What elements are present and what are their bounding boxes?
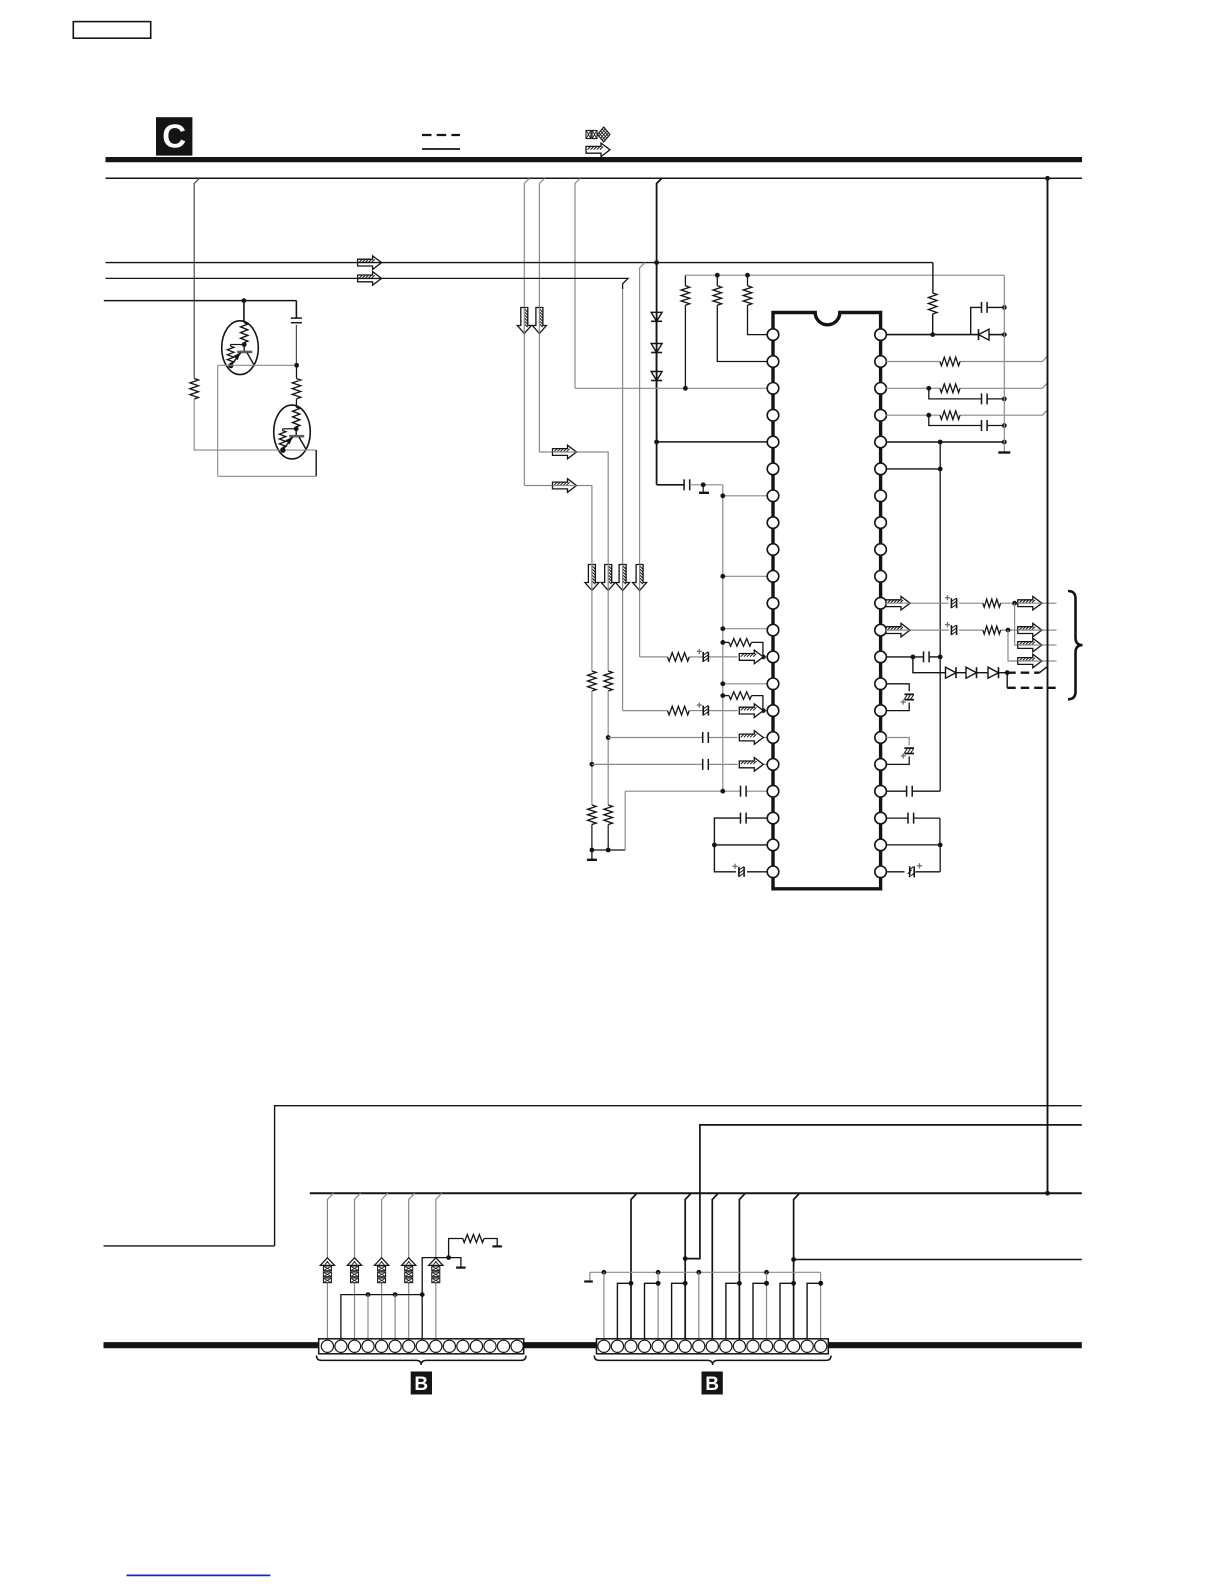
terminal bar stub: [449, 1258, 466, 1268]
arrow into pin13: [739, 650, 763, 664]
U1 pin L19: [767, 812, 779, 824]
wire pin R4 row: [886, 410, 1048, 418]
svg-text:B: B: [414, 1374, 428, 1395]
wire D5-D6: [956, 672, 966, 674]
bottom bus thick: [104, 1342, 1082, 1348]
arrow down B: [532, 308, 546, 334]
wire pin16 row: [608, 737, 767, 739]
U1 pin L12: [767, 624, 779, 636]
wire D3 to pin3 row: [656, 381, 658, 389]
node D4 cathode-ish: [1002, 305, 1007, 337]
node Q1 emitter net right: [294, 363, 299, 368]
node bus vertical bottom: [1045, 1191, 1050, 1196]
dashed link to bus: [1007, 666, 1047, 672]
resistor R8: [940, 384, 960, 393]
diode D5: [946, 667, 957, 678]
resistor R11: [604, 671, 613, 691]
wire diode stem to pin5 row: [654, 440, 767, 445]
hook CN2 pin2-pin3: [617, 1281, 633, 1339]
transistor Q2: [274, 405, 311, 459]
wire pin15 row: [623, 710, 768, 712]
wire x608 lower: [607, 588, 609, 671]
arrow bus row4: [1018, 654, 1042, 668]
wire pin12 row: [720, 626, 767, 631]
capacitor C3 polarized: [697, 649, 709, 662]
arrow up CN1 pin9: [429, 1258, 443, 1283]
node gang c6: [393, 1292, 398, 1297]
ground rail under resistors: [590, 848, 626, 853]
capacitor C14 polarized: [945, 622, 957, 635]
resistor R13: [604, 805, 613, 825]
ground G2: [699, 485, 709, 493]
hook CN2 pin4-pin5: [645, 1281, 661, 1339]
U1 pin R21: [875, 866, 887, 878]
legend checkered arrow: [586, 127, 610, 142]
svg-text:C: C: [162, 118, 186, 155]
hook CN2 pin12-pin13: [753, 1281, 769, 1339]
arrow down A: [517, 308, 531, 334]
diode D6: [966, 667, 977, 678]
IC U1: [773, 313, 881, 889]
wire drop CN1 pin9: [436, 1193, 442, 1339]
node gang net-junction: [420, 1292, 425, 1297]
wire drop to Q1 area: [194, 178, 199, 378]
U1 pin R19: [875, 812, 887, 824]
brace right harness: [1068, 591, 1083, 699]
U1 pin L1: [767, 329, 779, 341]
ground rail CN2: [590, 1271, 821, 1273]
wire gang c6 drop: [394, 1295, 396, 1339]
hook CN2 pin16-pin17: [807, 1281, 823, 1339]
arrow bus R11: [1018, 596, 1042, 610]
U1 pin L21: [767, 866, 779, 878]
wire gang row y1294: [341, 1295, 422, 1339]
wire net y1245 left: [104, 1245, 275, 1247]
capacitor C9 polarized: [732, 864, 744, 877]
wire D7 out: [998, 670, 1009, 675]
U1 pin R7: [875, 490, 887, 502]
U1 pin L18: [767, 785, 779, 797]
wire x608 to ground rail: [607, 825, 609, 851]
wire drop mid B: [539, 178, 544, 452]
wire supply vertical x1004: [1003, 275, 1005, 452]
node gang c4: [366, 1292, 371, 1297]
blue underline: [127, 1574, 271, 1576]
node Q2 emitter: [280, 448, 285, 453]
wire loop right down: [315, 450, 317, 476]
label B CN1: [411, 1372, 432, 1395]
wire drop CN2 pin7: [685, 1193, 691, 1339]
node rail CN2 pin1: [602, 1270, 607, 1275]
arrow out pin R11: [886, 596, 910, 610]
capacitor C5: [703, 732, 709, 743]
capacitor C18 pin R18: [886, 786, 940, 797]
wire row y452: [539, 452, 608, 588]
resistor R7: [940, 357, 960, 366]
U1 pin L7: [767, 490, 779, 502]
U1 pin R4: [875, 409, 887, 421]
wire row y485: [524, 486, 592, 589]
arrow up CN1 pin3: [347, 1258, 361, 1283]
node on thin bus: [1045, 176, 1050, 181]
node R20b net: [446, 1255, 451, 1260]
wire pin13 row: [640, 656, 768, 658]
wire pin R1 row: [886, 332, 1004, 337]
resistor R18: [983, 599, 1001, 607]
wire pin R20 row: [886, 843, 943, 848]
ground G3: [584, 1272, 593, 1281]
wire Q1 collector stub: [243, 301, 245, 322]
arrow into pin16: [739, 731, 763, 745]
wire pin18 row: [625, 789, 767, 794]
wire gang c4 drop: [367, 1295, 369, 1339]
node R1 bottom: [683, 386, 688, 391]
wire Q2 emitter row: [283, 449, 316, 451]
wire rail drop c13: [764, 1272, 769, 1339]
capacitor C15: [924, 651, 930, 662]
capacitor C19 pin R19: [886, 813, 940, 845]
wire drop CN2 pin11: [739, 1193, 745, 1339]
node R3 top: [745, 273, 750, 278]
wire row y278 with bend down: [106, 278, 629, 710]
resistor R9: [940, 411, 960, 420]
wire net y1105: [275, 1106, 1082, 1246]
resistor R5: [292, 365, 301, 405]
U1 pin R15: [875, 705, 887, 717]
arrow down E: [616, 565, 630, 591]
wire sense vertical x940: [939, 442, 941, 791]
wire pin21 row: [714, 845, 767, 872]
capacitor C1: [291, 318, 302, 323]
U1 pin L5: [767, 436, 779, 448]
U1 pin R9: [875, 544, 887, 556]
wire rail drop c1: [603, 1272, 605, 1339]
dashed stub down: [1006, 673, 1008, 688]
capacitor C7: [741, 786, 747, 797]
U1 pin L10: [767, 571, 779, 583]
section label C: [156, 117, 192, 155]
wire drop CN2 pin3: [631, 1193, 637, 1339]
wire pin14 row: [720, 681, 767, 686]
U1 pin R16: [875, 732, 887, 744]
wire D2-D3: [656, 353, 658, 372]
wire x608 below R11: [607, 691, 609, 805]
arrow up CN1 pin5: [374, 1258, 388, 1283]
wire drop mid A: [524, 178, 529, 485]
arrow on row y485: [553, 479, 577, 493]
U1 pin L4: [767, 409, 779, 421]
node rail CN2 pin5: [656, 1270, 661, 1275]
capacitor C2: [684, 479, 690, 490]
node rail CN2 pin13: [764, 1270, 769, 1275]
U1 pin R17: [875, 759, 887, 771]
U1 pin L14: [767, 678, 779, 690]
capacitor C13 polarized: [945, 595, 957, 608]
wire pin R3 row: [886, 383, 1048, 391]
capacitor C16 loop pins R14-R15: [886, 684, 914, 711]
arrow down F: [633, 565, 647, 591]
U1 pin R10: [875, 571, 887, 583]
wire bias vertical x722: [722, 485, 724, 791]
diode D1: [651, 312, 662, 321]
U1 pin R1: [875, 329, 887, 341]
U1 pin L3: [767, 383, 779, 395]
U1 pin L17: [767, 759, 779, 771]
node R18 out: [1012, 601, 1017, 606]
arrow on row y452: [553, 445, 577, 459]
wire pin10 row: [720, 574, 767, 579]
node jog x685: [683, 1256, 688, 1261]
U1 pin R6: [875, 463, 887, 475]
wire pin19 row: [714, 818, 767, 845]
brace CN1: [317, 1356, 527, 1366]
resistor R20b pullup: [449, 1235, 498, 1258]
diode D2: [651, 344, 662, 353]
wire x591 lower: [591, 588, 593, 671]
connector CN1: [319, 1339, 524, 1354]
wire pin R2 row: [886, 356, 1048, 362]
U1 pin L15: [767, 705, 779, 717]
bus row y1193: [310, 1192, 1082, 1194]
arrow on row y262: [358, 256, 382, 270]
wire C1 to node: [295, 325, 297, 366]
wire rail up to pin18 row: [624, 791, 626, 850]
capacitor C12 branch: [929, 415, 1007, 431]
wire pin R6 row: [886, 467, 943, 472]
wire x591 below R10: [591, 691, 593, 805]
wire drop to pin3 row: [575, 178, 580, 388]
resistor R3: [743, 275, 767, 334]
wire drop diode chain stem: [657, 178, 662, 485]
node rail CN2 pin8: [696, 1270, 701, 1275]
U1 pin R2: [875, 356, 887, 368]
resistor R6: [928, 293, 937, 335]
legend dashed line: [422, 134, 460, 136]
capacitor C20 polarized pin R21: [886, 845, 940, 872]
resistor R19: [983, 626, 1001, 634]
capacitor C8: [741, 813, 747, 824]
node R2 top: [715, 273, 720, 278]
legend hatched arrow: [586, 143, 610, 157]
svg-text:B: B: [705, 1374, 719, 1395]
bus line thick: [106, 157, 1083, 162]
wire D1-D2: [656, 321, 658, 343]
wire row y262 corner to R6res: [932, 263, 934, 293]
wire rail end c17: [818, 1272, 823, 1339]
wire pin R11 row: [886, 602, 1057, 604]
terminal bar right of R20b: [492, 1245, 502, 1247]
resistor R17 feedback: [720, 692, 765, 713]
wire out y1259: [791, 1257, 1082, 1262]
wire rail drop c8: [698, 1272, 700, 1339]
U1 pin R14: [875, 678, 887, 690]
U1 pin L2: [767, 356, 779, 368]
wire cap row y484: [657, 484, 685, 486]
U1 pin L6: [767, 463, 779, 475]
wire drop CN2 pin9: [712, 1193, 718, 1339]
capacitor C10: [982, 302, 1005, 313]
hook CN2 pin10-pin11: [726, 1281, 742, 1339]
legend solid line: [422, 148, 460, 150]
U1 pin R5: [875, 436, 887, 448]
U1 pin L16: [767, 732, 779, 744]
wire pin R13 row: [886, 655, 943, 660]
connector CN2: [597, 1339, 829, 1354]
U1 pin R20: [875, 839, 887, 851]
brace CN2: [594, 1356, 831, 1366]
U1 pin R11: [875, 597, 887, 609]
wire pin R5 row: [886, 440, 1007, 445]
resistor R2: [713, 275, 768, 361]
resistor R1: [681, 275, 690, 388]
U1 pin L13: [767, 651, 779, 663]
arrow down D: [601, 565, 615, 591]
node R19 out: [1006, 628, 1011, 633]
arrow into pin15: [739, 704, 763, 718]
wire drop CN2 pin15: [794, 1193, 800, 1339]
capacitor C17 loop pins R16-R17: [886, 738, 914, 765]
arrow bus row3: [1018, 638, 1042, 652]
wire vertical x639 from row y262: [640, 263, 645, 657]
title box: [73, 22, 150, 39]
wire pin3 row: [575, 387, 768, 389]
U1 pin L9: [767, 544, 779, 556]
label B CN2: [702, 1372, 723, 1395]
U1 pin L20: [767, 839, 779, 851]
arrow on row y278: [358, 272, 382, 286]
transistor Q1: [222, 321, 259, 375]
capacitor C6: [703, 759, 709, 770]
wire diode row stem: [913, 657, 946, 673]
node row y262 / diode stem: [654, 260, 659, 265]
arrow up CN1 pin1: [320, 1258, 334, 1283]
arrow up CN1 pin7: [402, 1258, 416, 1283]
wire net y1124: [685, 1125, 1082, 1259]
resistor R14: [668, 653, 690, 662]
U1 pin R3: [875, 383, 887, 395]
U1 pin R12: [875, 624, 887, 636]
wire drop CN1 pin7: [409, 1193, 415, 1339]
U1 pin L8: [767, 517, 779, 529]
ground G1: [587, 850, 597, 860]
resistor R10: [588, 671, 597, 691]
diode D4: [979, 329, 990, 340]
wire resistor top rail y275: [685, 274, 1004, 276]
arrow down C: [585, 565, 599, 591]
hook CN2 pin14-pin15: [780, 1281, 796, 1339]
wire drop CN1 pin3: [355, 1193, 361, 1339]
wire row y262: [106, 262, 933, 264]
wire R4 down to emitter row: [194, 399, 283, 450]
wire R20b net to CN1 pin8: [422, 1258, 448, 1339]
resistor R12: [588, 805, 597, 825]
capacitor C10 stem: [971, 307, 982, 334]
wire pin20 row: [712, 843, 768, 848]
wire row y300: [104, 300, 297, 302]
wire loop left up: [217, 365, 219, 476]
resistor R15 feedback: [720, 639, 765, 660]
wire D6-D7: [976, 672, 988, 674]
dashed wire lower: [1007, 687, 1055, 689]
U1 pin R18: [875, 785, 887, 797]
wire drop CN1 pin5: [382, 1193, 388, 1339]
node Q1 collector: [242, 298, 247, 303]
resistor R4: [190, 379, 199, 400]
wire pin R12 row: [886, 629, 1057, 631]
node x591 pin17 row: [590, 762, 595, 767]
wire horizontal bus thin: [106, 177, 1083, 179]
wire x591 to ground rail: [591, 825, 593, 851]
U1 pin R13: [875, 651, 887, 663]
wire C2 to node: [690, 482, 723, 487]
wire tap row 4: [1008, 630, 1057, 661]
wire pin7 row: [720, 493, 767, 498]
bus vertical right: [1047, 178, 1049, 1193]
arrow bus R12: [1018, 623, 1042, 637]
diode D3: [651, 372, 662, 381]
wire loop bottom: [218, 475, 317, 477]
node x608 pin16 row: [606, 735, 611, 740]
hook CN2 pin6-pin7: [672, 1281, 688, 1339]
wire tap row 3: [1015, 603, 1057, 645]
wire drop CN1 pin1: [327, 1193, 333, 1339]
resistor R16: [668, 706, 690, 715]
wire rail drop c5: [656, 1272, 661, 1339]
diode D7: [988, 667, 999, 678]
U1 pin R8: [875, 517, 887, 529]
arrow into pin17: [739, 758, 763, 772]
terminal bar x1004: [998, 451, 1010, 453]
wire pin17 row: [592, 763, 768, 765]
arrow out pin R12: [886, 623, 910, 637]
capacitor C11 branch: [929, 388, 1007, 404]
capacitor C4 polarized: [697, 703, 709, 716]
wire Q1 emitter row: [218, 364, 297, 366]
U1 pin L11: [767, 597, 779, 609]
wire cap C1 stem: [295, 301, 297, 318]
